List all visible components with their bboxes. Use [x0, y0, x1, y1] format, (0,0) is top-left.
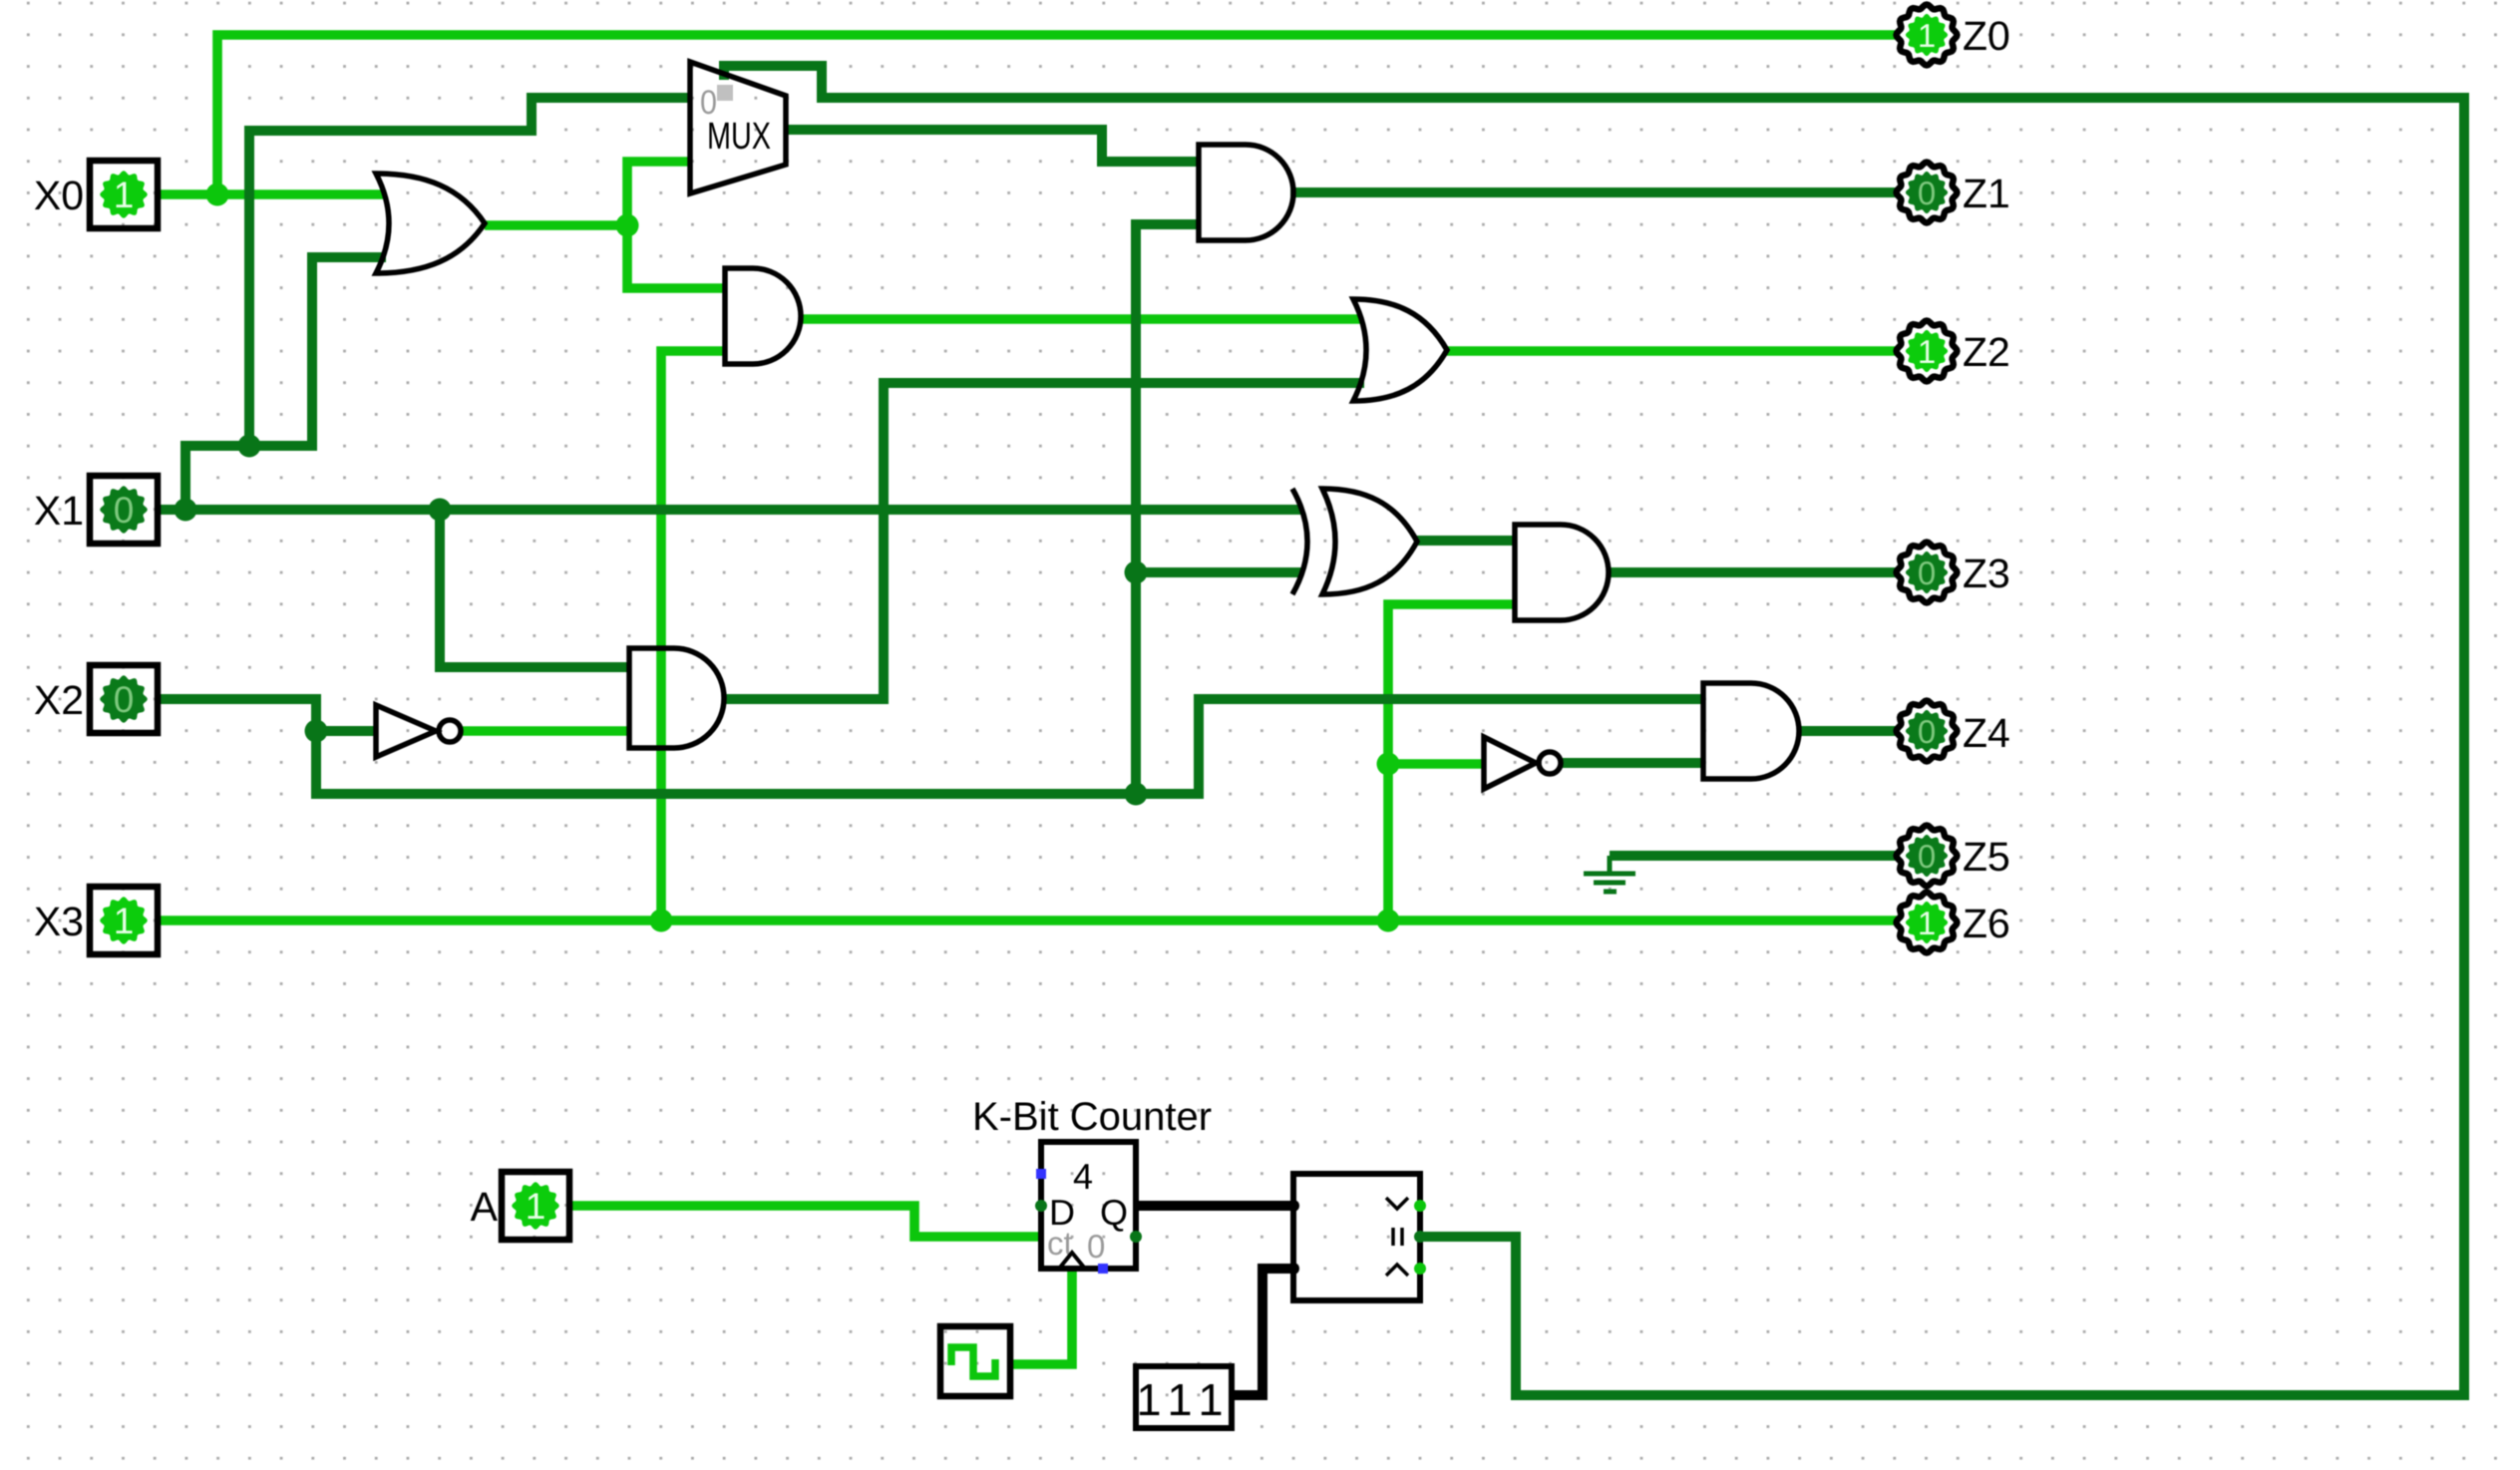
- svg-text:0: 0: [114, 679, 135, 720]
- svg-text:0: 0: [1918, 713, 1936, 750]
- svg-text:1: 1: [1918, 905, 1936, 941]
- svg-text:0: 0: [1087, 1228, 1105, 1265]
- svg-text:1: 1: [526, 1186, 546, 1227]
- svg-text:A: A: [471, 1184, 499, 1230]
- svg-text:X2: X2: [34, 677, 84, 723]
- svg-text:0: 0: [1918, 554, 1936, 591]
- svg-text:Q: Q: [1100, 1192, 1128, 1233]
- svg-text:X0: X0: [34, 173, 84, 218]
- svg-text:X1: X1: [34, 488, 84, 534]
- svg-text:0: 0: [700, 84, 717, 122]
- svg-text:Z6: Z6: [1963, 901, 2010, 946]
- svg-text:1: 1: [1198, 1374, 1223, 1425]
- svg-text:0: 0: [1918, 838, 1936, 875]
- svg-text:X3: X3: [34, 899, 84, 944]
- svg-text:Z3: Z3: [1963, 551, 2010, 596]
- svg-text:K-Bit Counter: K-Bit Counter: [972, 1095, 1212, 1139]
- svg-text:Z4: Z4: [1963, 710, 2010, 756]
- svg-text:Z5: Z5: [1963, 834, 2010, 880]
- svg-text:1: 1: [114, 175, 135, 215]
- svg-text:Z0: Z0: [1963, 13, 2010, 59]
- svg-text:1: 1: [1918, 333, 1936, 370]
- svg-text:Z1: Z1: [1963, 171, 2010, 216]
- svg-text:1: 1: [1918, 17, 1936, 54]
- svg-text:1: 1: [1167, 1374, 1192, 1425]
- svg-text:1: 1: [114, 901, 135, 941]
- svg-text:Z2: Z2: [1963, 329, 2010, 375]
- svg-text:4: 4: [1073, 1156, 1093, 1197]
- svg-text:0: 0: [114, 490, 135, 531]
- svg-text:0: 0: [1918, 175, 1936, 211]
- svg-text:MUX: MUX: [707, 116, 771, 158]
- svg-text:1: 1: [1136, 1374, 1161, 1425]
